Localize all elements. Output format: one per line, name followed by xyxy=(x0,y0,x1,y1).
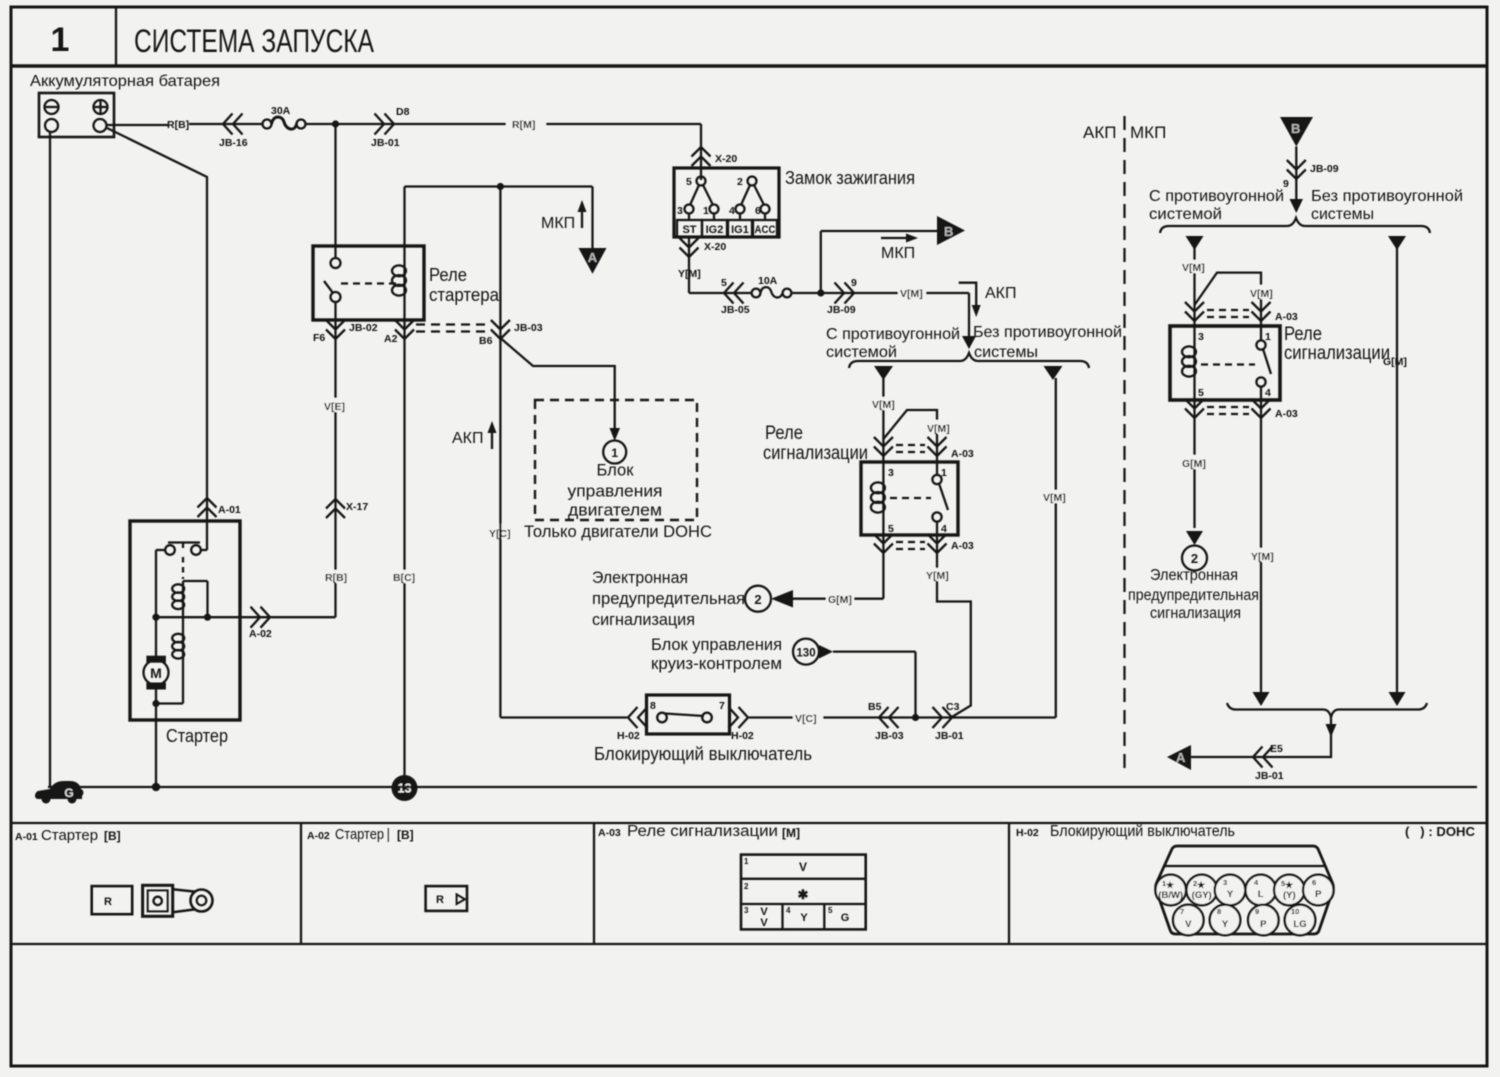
svg-text:JB-09: JB-09 xyxy=(1310,163,1339,175)
svg-text:A-03: A-03 xyxy=(598,827,621,839)
svg-text:Блок: Блок xyxy=(597,461,635,480)
svg-text:V: V xyxy=(799,860,807,874)
svg-text:управления: управления xyxy=(568,482,663,501)
svg-text:R: R xyxy=(436,894,444,906)
svg-text:LG: LG xyxy=(1293,919,1306,930)
svg-text:Стартер: Стартер xyxy=(41,828,98,844)
svg-text:JB-01: JB-01 xyxy=(935,730,964,742)
svg-text:сигнализации: сигнализации xyxy=(1284,343,1390,364)
svg-text:стартера: стартера xyxy=(429,285,500,305)
svg-text:10: 10 xyxy=(1291,907,1299,916)
svg-text:двигателем: двигателем xyxy=(568,501,662,520)
svg-text:Замок зажигания: Замок зажигания xyxy=(785,168,915,188)
svg-text:G: G xyxy=(64,786,73,800)
svg-text:30A: 30A xyxy=(271,105,291,117)
svg-text:A-03: A-03 xyxy=(1275,408,1298,420)
svg-text:Y: Y xyxy=(1222,919,1229,930)
svg-text:V: V xyxy=(1185,919,1192,930)
svg-text:сигнализация: сигнализация xyxy=(1150,605,1241,622)
svg-text:Y: Y xyxy=(800,912,808,924)
svg-text:ACC: ACC xyxy=(755,224,776,236)
svg-text:Реле сигнализации: Реле сигнализации xyxy=(627,823,778,840)
svg-text:JB-02: JB-02 xyxy=(349,322,378,334)
svg-text:B: B xyxy=(944,224,953,239)
svg-text:V[E]: V[E] xyxy=(324,401,345,413)
svg-text:A-02: A-02 xyxy=(307,830,330,842)
svg-text:A: A xyxy=(588,250,598,265)
svg-text:L: L xyxy=(1258,889,1264,900)
svg-text:M: M xyxy=(150,665,162,681)
svg-text:системы: системы xyxy=(1311,206,1374,223)
svg-text:[M]: [M] xyxy=(782,826,800,840)
svg-text:G: G xyxy=(841,912,850,924)
svg-text:4: 4 xyxy=(1265,387,1271,399)
svg-text:IG2: IG2 xyxy=(706,224,724,236)
svg-text:G[M]: G[M] xyxy=(1182,458,1206,470)
svg-text:1: 1 xyxy=(744,857,749,866)
svg-text:Только двигатели DOHC: Только двигатели DOHC xyxy=(524,522,712,541)
svg-text:R[B]: R[B] xyxy=(167,119,189,131)
svg-text:системы: системы xyxy=(974,344,1038,361)
svg-text:A-03: A-03 xyxy=(1275,311,1298,323)
svg-text:Электронная: Электронная xyxy=(592,568,688,587)
svg-text:★: ★ xyxy=(1166,880,1175,890)
svg-text:6: 6 xyxy=(1312,878,1316,887)
svg-text:7: 7 xyxy=(1180,907,1184,916)
svg-text:V[M]: V[M] xyxy=(872,399,895,411)
svg-text:A: A xyxy=(1176,750,1186,765)
svg-text:МКП: МКП xyxy=(1130,123,1166,142)
svg-text:A-01: A-01 xyxy=(15,831,38,843)
svg-text:АКП: АКП xyxy=(452,430,484,447)
svg-text:Y[M]: Y[M] xyxy=(926,570,949,582)
svg-text:3: 3 xyxy=(1198,331,1204,343)
svg-text:Реле: Реле xyxy=(765,423,803,444)
svg-text:B5: B5 xyxy=(868,701,882,713)
svg-text:(Y): (Y) xyxy=(1283,890,1296,901)
svg-text:3: 3 xyxy=(744,906,749,915)
svg-text:Блокирующий выключатель: Блокирующий выключатель xyxy=(594,744,812,764)
svg-text:5: 5 xyxy=(1198,387,1204,399)
svg-text:A-01: A-01 xyxy=(218,504,241,516)
svg-text:V[C]: V[C] xyxy=(795,713,817,725)
svg-text:JB-01: JB-01 xyxy=(371,137,400,149)
svg-text:1: 1 xyxy=(611,446,618,460)
svg-text:[B]: [B] xyxy=(397,828,414,842)
svg-text:Аккумуляторная батарея: Аккумуляторная батарея xyxy=(30,73,220,90)
svg-text:5: 5 xyxy=(888,523,894,535)
svg-text:Y[M]: Y[M] xyxy=(678,268,701,280)
svg-text:10A: 10A xyxy=(758,275,778,287)
svg-text:системой: системой xyxy=(826,344,897,361)
svg-text:X-20: X-20 xyxy=(704,241,726,253)
svg-text:С противоугонной: С противоугонной xyxy=(826,326,960,343)
svg-text:B: B xyxy=(1291,121,1300,136)
svg-text:Блокирующий выключатель: Блокирующий выключатель xyxy=(1050,823,1235,840)
svg-text:МКП: МКП xyxy=(881,245,915,262)
svg-text:A2: A2 xyxy=(384,333,398,345)
svg-text:H-02: H-02 xyxy=(731,730,754,742)
svg-text:2: 2 xyxy=(744,882,749,891)
svg-text:G[M]: G[M] xyxy=(1383,356,1407,368)
svg-text:R[B]: R[B] xyxy=(325,572,347,584)
svg-text:4: 4 xyxy=(786,906,791,915)
svg-text:3: 3 xyxy=(888,467,894,479)
svg-text:1: 1 xyxy=(51,21,70,59)
svg-text:JB-03: JB-03 xyxy=(514,322,543,334)
svg-text:D8: D8 xyxy=(396,106,410,118)
svg-text:5: 5 xyxy=(686,176,692,188)
svg-text:сигнализация: сигнализация xyxy=(592,610,695,629)
svg-text:R[M]: R[M] xyxy=(512,119,535,131)
svg-text:V[M]: V[M] xyxy=(1182,262,1205,274)
svg-text:A-02: A-02 xyxy=(249,628,272,640)
svg-text:✱: ✱ xyxy=(798,887,809,902)
svg-text:Y: Y xyxy=(1227,889,1234,900)
svg-text:JB-05: JB-05 xyxy=(721,304,750,316)
svg-text:H-02: H-02 xyxy=(617,730,640,742)
svg-text:АКП: АКП xyxy=(1083,123,1116,142)
svg-text:Стартер |: Стартер | xyxy=(335,827,390,843)
svg-text:A-03: A-03 xyxy=(951,540,974,552)
svg-text:★: ★ xyxy=(1285,880,1294,890)
svg-text:С противоугонной: С противоугонной xyxy=(1149,188,1284,205)
svg-text:[B]: [B] xyxy=(104,829,121,843)
svg-text:(B/W): (B/W) xyxy=(1158,890,1183,901)
svg-text:V[M]: V[M] xyxy=(1043,492,1066,504)
svg-text:предупредительная: предупредительная xyxy=(1128,587,1259,604)
svg-text:9: 9 xyxy=(1255,907,1259,916)
svg-text:МКП: МКП xyxy=(541,215,575,232)
svg-text:B6: B6 xyxy=(479,335,493,347)
svg-text:предупредительная: предупредительная xyxy=(592,589,745,608)
svg-text:JB-16: JB-16 xyxy=(219,137,248,149)
svg-text:V[M]: V[M] xyxy=(900,288,923,300)
svg-text:3: 3 xyxy=(1223,878,1227,887)
svg-text:2: 2 xyxy=(754,592,761,607)
svg-text:2: 2 xyxy=(737,176,743,188)
svg-text:2: 2 xyxy=(1191,551,1198,566)
svg-text:Без противоугонной: Без противоугонной xyxy=(973,324,1122,341)
svg-text:1: 1 xyxy=(703,205,709,217)
svg-text:4: 4 xyxy=(729,205,735,217)
svg-text:Y[M]: Y[M] xyxy=(1251,551,1274,563)
svg-text:АКП: АКП xyxy=(985,285,1017,302)
svg-text:13: 13 xyxy=(398,782,412,796)
svg-text:X-20: X-20 xyxy=(715,153,737,165)
svg-text:A-03: A-03 xyxy=(951,448,974,460)
svg-text:P: P xyxy=(1260,919,1267,930)
svg-text:H-02: H-02 xyxy=(1016,827,1039,839)
svg-text:Без противоугонной: Без противоугонной xyxy=(1311,188,1463,205)
svg-text:F6: F6 xyxy=(313,332,325,344)
svg-text:Стартер: Стартер xyxy=(166,726,228,746)
svg-text:G[M]: G[M] xyxy=(828,594,852,606)
svg-text:СИСТЕМА ЗАПУСКА: СИСТЕМА ЗАПУСКА xyxy=(134,23,375,59)
svg-text:JB-09: JB-09 xyxy=(827,304,856,316)
svg-text:Блок управления: Блок управления xyxy=(651,636,782,654)
svg-text:9: 9 xyxy=(851,277,857,289)
svg-text:4: 4 xyxy=(941,523,947,535)
svg-text:E5: E5 xyxy=(1270,743,1283,755)
svg-text:8: 8 xyxy=(650,700,656,712)
svg-text:V[M]: V[M] xyxy=(1250,288,1273,300)
svg-text:JB-01: JB-01 xyxy=(1255,770,1284,782)
svg-text:Реле: Реле xyxy=(1284,324,1322,345)
svg-text:★: ★ xyxy=(1197,880,1206,890)
svg-text:8: 8 xyxy=(1217,907,1221,916)
svg-text:7: 7 xyxy=(719,700,725,712)
svg-text:Электронная: Электронная xyxy=(1150,567,1238,584)
svg-text:1: 1 xyxy=(1265,331,1271,343)
svg-text:(GY): (GY) xyxy=(1192,890,1212,901)
svg-text:V: V xyxy=(760,917,768,929)
svg-text:B[C]: B[C] xyxy=(393,572,415,584)
svg-text:R: R xyxy=(104,896,112,908)
svg-text:5: 5 xyxy=(828,906,833,915)
svg-text:5: 5 xyxy=(721,277,727,289)
svg-text:X-17: X-17 xyxy=(346,501,368,513)
svg-text:круиз-контролем: круиз-контролем xyxy=(651,655,782,673)
svg-text:P: P xyxy=(1315,889,1322,900)
svg-text:V[M]: V[M] xyxy=(927,423,950,435)
svg-text:ST: ST xyxy=(682,224,696,236)
svg-text:сигнализации: сигнализации xyxy=(763,443,868,464)
svg-text:130: 130 xyxy=(796,648,815,660)
svg-text:Реле: Реле xyxy=(429,265,467,285)
svg-text:3: 3 xyxy=(677,205,683,217)
svg-text:C3: C3 xyxy=(946,701,960,713)
svg-text:( ) : DOHC: ( ) : DOHC xyxy=(1405,824,1476,839)
svg-text:системой: системой xyxy=(1149,206,1222,223)
svg-text:JB-03: JB-03 xyxy=(875,730,904,742)
svg-text:6: 6 xyxy=(755,205,761,217)
svg-text:IG1: IG1 xyxy=(731,224,749,236)
